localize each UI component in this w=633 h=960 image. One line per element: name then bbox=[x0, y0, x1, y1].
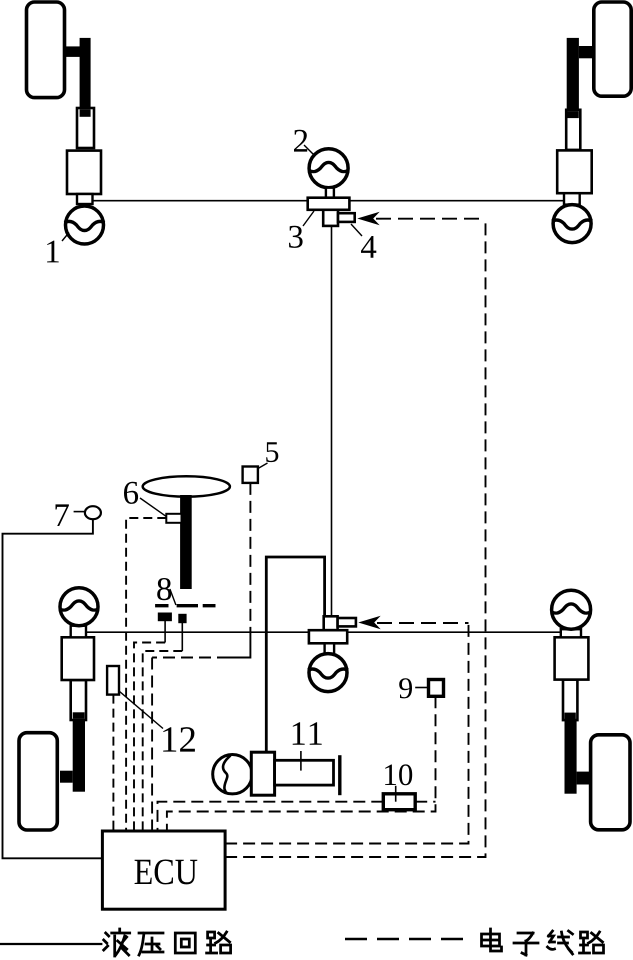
wave rear accumulator (valley) bbox=[308, 669, 348, 678]
label 3 bbox=[289, 226, 303, 248]
char dian 电 bbox=[482, 929, 502, 951]
strut front-left bbox=[77, 108, 94, 148]
front valve neck bbox=[326, 188, 334, 198]
spring unit 1 circle bbox=[66, 206, 104, 244]
neck front-right bbox=[564, 193, 580, 204]
spring unit rear-right circle bbox=[552, 590, 591, 629]
ECU label bbox=[135, 860, 198, 885]
wheel front-left bbox=[27, 2, 65, 98]
hub link front-right bbox=[579, 46, 594, 58]
wheel rear-right bbox=[591, 735, 630, 830]
rear valve neck bbox=[325, 643, 335, 653]
dashed line ECU to front solenoid bbox=[225, 219, 485, 857]
strut rear-right bbox=[563, 680, 577, 721]
spring unit rear-left circle bbox=[60, 588, 98, 626]
tick label 5 bbox=[258, 463, 268, 469]
hydraulic loop pump to rear valve bbox=[266, 557, 324, 752]
motor body 11 bbox=[275, 760, 334, 785]
brake pedal 8 dashes bbox=[155, 604, 215, 607]
wave in unit 1 bbox=[65, 221, 105, 230]
dashed line sensor 9 to ECU bbox=[167, 696, 436, 831]
front axle line bbox=[90, 200, 308, 202]
dashed control line to 4 bbox=[376, 218, 486, 220]
sensor 5 square bbox=[243, 467, 258, 483]
neck front-left bbox=[77, 194, 93, 204]
legend text electronic 电子线路 bbox=[482, 929, 604, 955]
tick label 10 bbox=[395, 786, 397, 802]
char lu 路 bbox=[580, 932, 604, 953]
front valve body 3 bbox=[308, 198, 350, 210]
strut rear-left bbox=[71, 680, 86, 720]
solenoid 4 bbox=[338, 213, 355, 222]
rear valve body bbox=[309, 630, 347, 643]
dashed line sensor 5 to ECU bbox=[249, 483, 251, 633]
hub link rear-right bbox=[577, 772, 592, 785]
tick label 3 bbox=[303, 211, 314, 226]
pump circle bbox=[213, 755, 252, 794]
wheel rear-left bbox=[19, 733, 57, 830]
actuator box front-right bbox=[557, 150, 592, 193]
arrow into rear solenoid bbox=[360, 617, 379, 628]
hydraulic pipe front valve to rear valve bbox=[331, 226, 333, 616]
sensor 9 square bbox=[429, 680, 444, 697]
char zi 子 bbox=[514, 933, 538, 955]
tick label 1 bbox=[62, 233, 69, 242]
label 1 bbox=[47, 241, 59, 263]
neck rear-left bbox=[71, 626, 86, 638]
legend solid line bbox=[0, 943, 102, 945]
label 10 bbox=[385, 764, 412, 785]
tick label 4 bbox=[351, 224, 362, 236]
actuator box front-left bbox=[67, 151, 101, 194]
legend text hydraulic 液压回路 bbox=[104, 929, 231, 956]
steering wheel rim bbox=[143, 476, 230, 496]
label 8 bbox=[157, 578, 171, 600]
hub link front-left bbox=[66, 46, 81, 57]
dashed line 6 to ECU bbox=[126, 518, 166, 831]
wave in accumulator 2 (peak) bbox=[309, 162, 348, 171]
strut front-right bbox=[566, 110, 580, 150]
dashed line left contact to ECU bbox=[134, 643, 165, 832]
dashed control line to rear solenoid bbox=[377, 622, 469, 624]
label 4 bbox=[361, 236, 376, 258]
legend dashed line bbox=[345, 938, 470, 941]
rear axle line bbox=[86, 631, 309, 633]
wheel front-right bbox=[594, 2, 631, 96]
tick label 12 bbox=[119, 691, 163, 729]
arrow into 4 bbox=[359, 213, 378, 224]
contact lead right bbox=[181, 623, 183, 651]
rear valve upper box bbox=[324, 616, 338, 630]
wave rear-left (peak) bbox=[60, 601, 99, 610]
hub link rear-left bbox=[60, 771, 73, 783]
spring unit front-right circle bbox=[553, 205, 591, 243]
pump block bbox=[251, 752, 274, 795]
dashed link 10 to 9 line bbox=[415, 801, 435, 803]
front valve: accumulator 2 circle bbox=[309, 149, 348, 188]
char lu 路 bbox=[207, 932, 231, 953]
char ya 压 bbox=[139, 933, 163, 955]
relay 10 bbox=[383, 794, 415, 810]
dashed line ECU to rear solenoid bbox=[225, 623, 468, 844]
label 7 bbox=[56, 504, 69, 526]
dashed line right contact to ECU bbox=[143, 651, 183, 831]
brake switch contacts 8 bbox=[158, 613, 172, 622]
actuator box rear-right bbox=[555, 637, 589, 679]
rear solenoid bbox=[338, 618, 356, 626]
char ye 液 bbox=[104, 929, 130, 956]
shaft end bar bbox=[338, 755, 341, 795]
ECU box bbox=[102, 831, 225, 909]
solid line sensor 7 to ECU left bbox=[3, 519, 103, 858]
line from label 7 to sensor bbox=[74, 511, 85, 513]
contact lead left bbox=[164, 621, 166, 643]
dashed line relay 10 to ECU bbox=[158, 802, 384, 831]
wave front-right bbox=[552, 220, 592, 229]
neck rear-right bbox=[561, 629, 581, 637]
label 5 bbox=[266, 442, 278, 462]
tick label 8 bbox=[170, 589, 176, 605]
pressure sensor 12 bbox=[107, 666, 119, 695]
char xian 线 bbox=[548, 931, 573, 954]
label 11 bbox=[293, 722, 322, 744]
pump inner curve bbox=[223, 756, 230, 794]
label 9 bbox=[399, 678, 412, 698]
front valve lower box bbox=[323, 210, 338, 226]
sensor 7 ellipse bbox=[85, 506, 101, 519]
rear accumulator circle bbox=[309, 654, 347, 692]
label 12 bbox=[163, 727, 195, 752]
label 6 bbox=[124, 482, 138, 504]
actuator box rear-left bbox=[62, 637, 94, 680]
line label 9 to square bbox=[415, 687, 428, 689]
char hui 回 bbox=[175, 933, 195, 953]
tick label 2 bbox=[304, 145, 314, 155]
steering column bbox=[180, 495, 192, 589]
tick label 6 bbox=[140, 498, 166, 516]
steering sensor 6 bbox=[166, 514, 181, 523]
label 2 bbox=[294, 130, 307, 152]
dashed line 12 to ECU bbox=[112, 695, 114, 831]
tick label 11 bbox=[300, 751, 302, 771]
wave rear-right (peak) bbox=[552, 604, 591, 613]
